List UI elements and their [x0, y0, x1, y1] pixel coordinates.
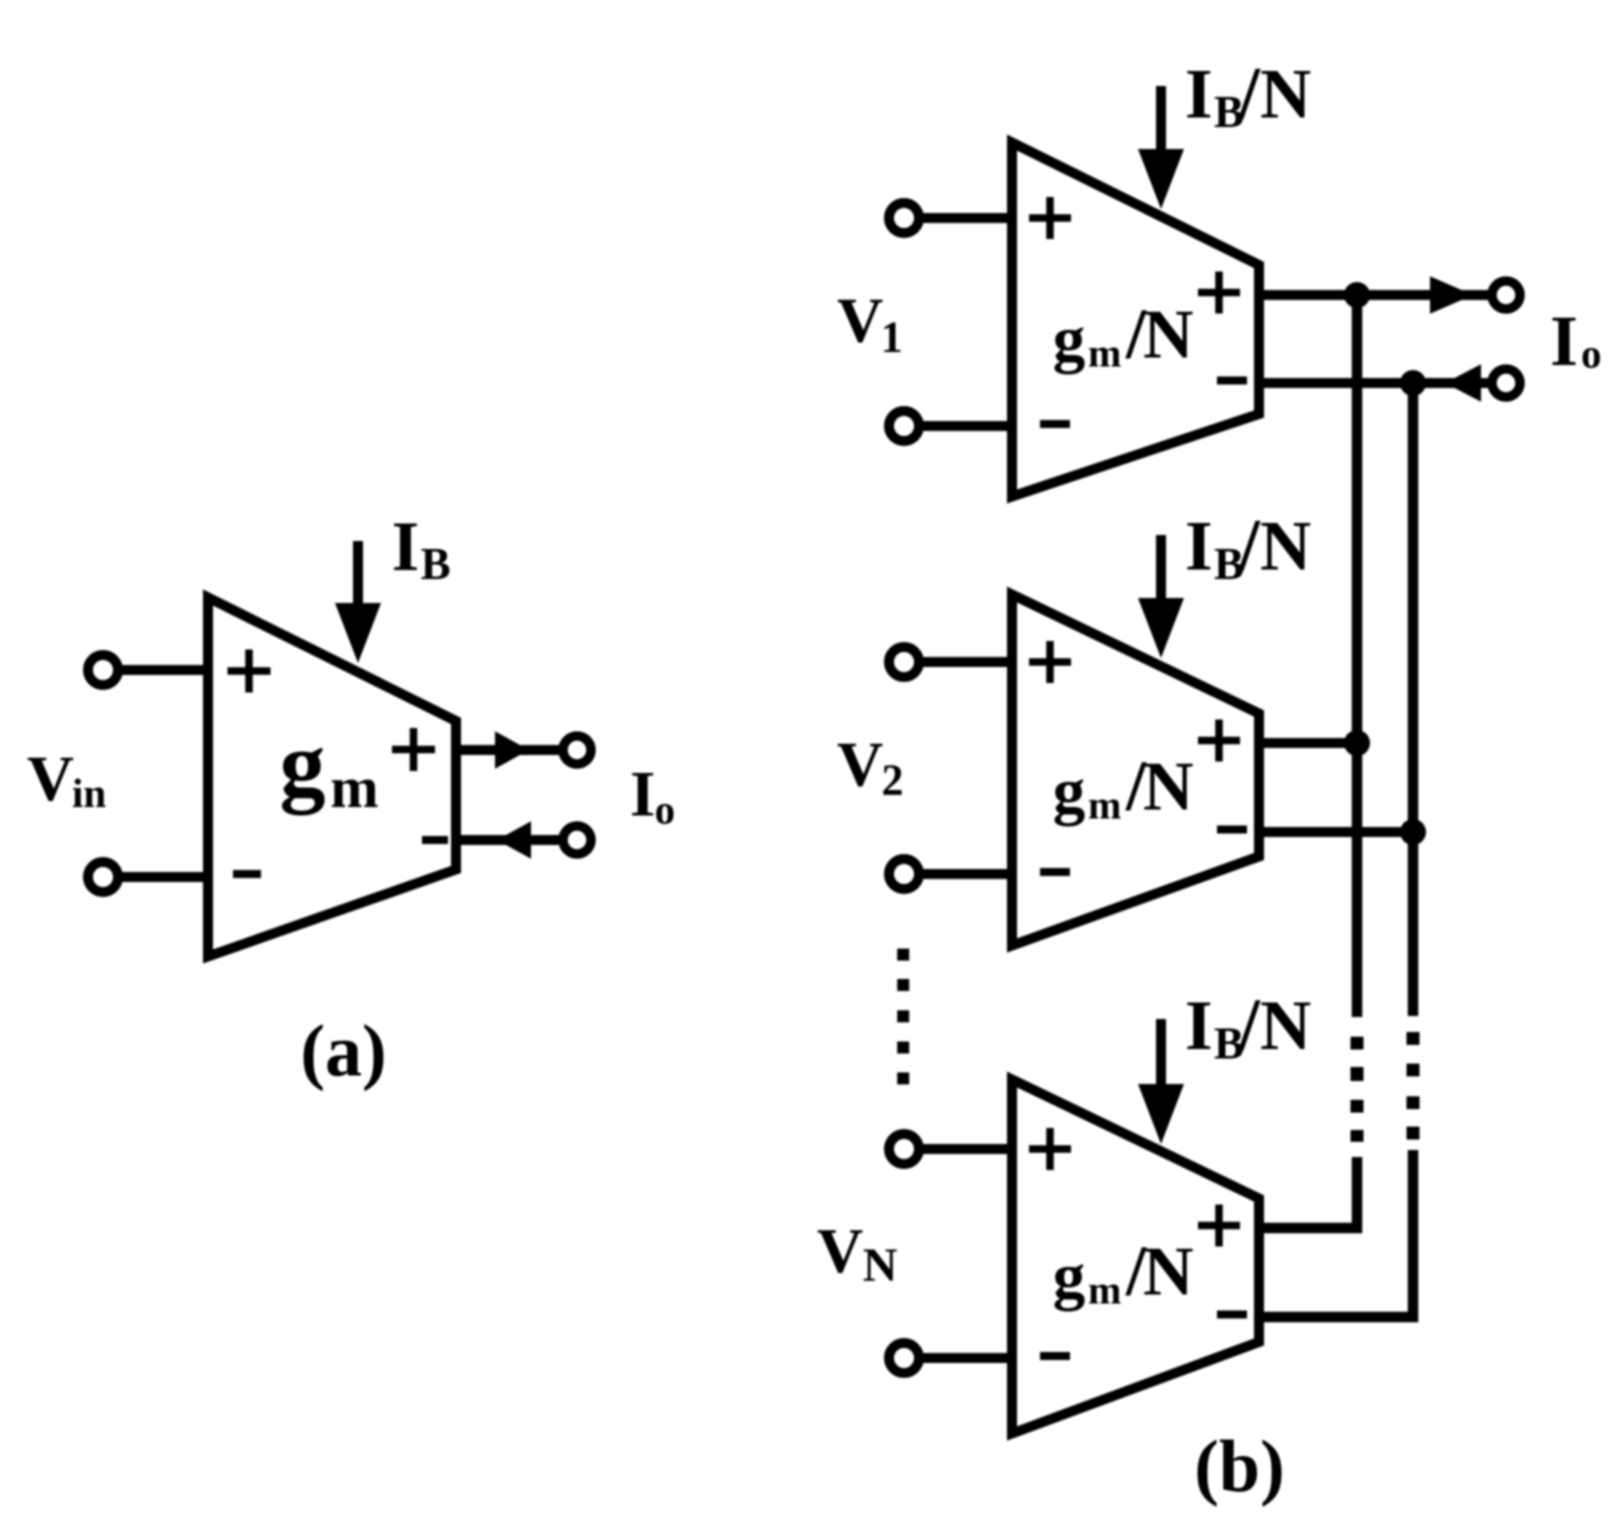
svg-text:I: I — [1185, 56, 1213, 134]
svg-text:2: 2 — [882, 756, 904, 805]
svg-text:V: V — [837, 729, 883, 800]
svg-text:m: m — [1088, 331, 1121, 376]
svg-text:m: m — [330, 755, 378, 820]
svg-text:N: N — [1143, 297, 1194, 374]
svg-text:N: N — [1260, 987, 1311, 1065]
svg-text:g: g — [280, 713, 326, 815]
svg-text:I: I — [1185, 987, 1213, 1065]
svg-text:I: I — [392, 508, 420, 586]
svg-text:V: V — [817, 1215, 863, 1286]
svg-text:g: g — [1053, 303, 1086, 375]
svg-text:N: N — [1260, 508, 1311, 586]
svg-text:(a): (a) — [300, 1011, 386, 1093]
svg-text:I: I — [630, 759, 655, 831]
svg-text:N: N — [863, 1239, 898, 1292]
svg-text:/: / — [1238, 505, 1261, 588]
svg-text:/: / — [1238, 984, 1261, 1067]
svg-text:1: 1 — [881, 313, 903, 362]
svg-text:/: / — [1238, 53, 1261, 136]
svg-text:in: in — [72, 770, 106, 816]
svg-text:g: g — [1053, 755, 1086, 827]
svg-text:V: V — [27, 743, 74, 815]
svg-text:N: N — [1143, 749, 1194, 826]
svg-text:m: m — [1088, 1268, 1121, 1313]
svg-text:B: B — [421, 539, 451, 589]
svg-text:g: g — [1053, 1240, 1086, 1312]
svg-text:I: I — [1185, 508, 1213, 586]
svg-text:I: I — [1550, 301, 1578, 381]
svg-text:V: V — [837, 285, 883, 356]
svg-text:m: m — [1088, 783, 1121, 828]
svg-text:o: o — [1581, 331, 1602, 377]
svg-text:o: o — [655, 787, 676, 833]
svg-text:(b): (b) — [1194, 1426, 1284, 1508]
svg-text:N: N — [1260, 56, 1311, 134]
svg-text:N: N — [1143, 1234, 1194, 1311]
